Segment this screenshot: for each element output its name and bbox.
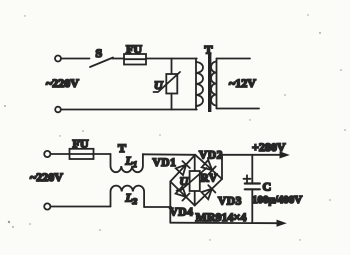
wire [50,153,69,155]
svg-text:100μ/400V: 100μ/400V [252,194,302,206]
svg-text:VD3: VD3 [218,196,242,208]
svg-text:C: C [263,180,272,194]
wire [112,58,124,60]
top rail arrowhead [280,151,290,158]
diode VD2 [202,160,216,174]
varistor RV top lead [194,155,196,171]
capacitor C bottom plate [245,188,260,190]
choke winding L2 [111,186,145,207]
fuse FU (top circuit) [124,54,146,65]
svg-text:L1: L1 [125,154,138,170]
capacitor C top lead [251,155,253,184]
switch S blade [90,58,113,68]
bridge edge L-B [170,182,194,206]
bottom rail [170,222,279,225]
terminal bottom-left upper [44,151,50,157]
svg-text:~220V: ~220V [46,76,79,90]
choke winding L1 [111,154,143,172]
diode VD4 [176,187,190,201]
varistor U lead [171,94,173,110]
varistor RV arrow [177,168,207,191]
wire L1 to bridge (top rail left) [143,153,195,156]
left vertex drop wire [169,182,171,223]
svg-text:S: S [96,46,103,60]
terminal top-left upper [55,56,61,62]
varistor RV body [190,171,200,191]
transformer T core [208,54,211,113]
wire [146,58,197,60]
wire [50,206,110,208]
svg-text:MR914×4: MR914×4 [196,210,247,224]
svg-text:RV: RV [201,173,218,185]
top rail right [222,154,282,156]
svg-text:~220V: ~220V [30,170,63,184]
svg-text:VD4: VD4 [170,207,194,219]
bridge edge L-T [170,155,195,182]
varistor U body [166,74,177,94]
terminal top-left lower [55,107,61,113]
terminal bottom-left lower [44,203,50,209]
svg-text:VD1: VD1 [153,157,177,169]
riser right vertex to top rail [221,155,223,179]
svg-text:FU: FU [73,137,89,151]
wire [94,153,111,155]
varistor U lead [171,59,173,75]
svg-text:~12V: ~12V [229,76,256,90]
bottom rail arrowhead [277,220,287,227]
wire secondary top [217,58,251,60]
svg-text:L2: L2 [125,191,138,207]
svg-text:FU: FU [126,42,142,56]
diode VD1 [176,161,190,175]
svg-text:U: U [180,174,190,188]
transformer T secondary winding [211,59,217,109]
wire L2 to bridge [144,206,171,208]
bridge edge B-R [195,179,222,206]
svg-text:+280V: +280V [252,140,286,154]
svg-text:U: U [154,78,164,92]
varistor RV bottom lead [194,191,196,206]
transformer T primary winding [196,59,203,110]
bridge edge T-R [195,155,222,179]
capacitor C plus sign [244,175,251,182]
wire bottom (top circuit) [61,109,197,111]
svg-text:VD2: VD2 [199,150,223,162]
diode VD3 [201,185,215,199]
fuse FU (bottom circuit) [70,149,94,159]
varistor U arrow [154,72,181,92]
capacitor C bottom lead [251,189,253,223]
wire [61,58,90,60]
wire secondary bottom [217,108,260,110]
svg-text:T: T [205,43,213,57]
capacitor C top plate [245,182,260,184]
